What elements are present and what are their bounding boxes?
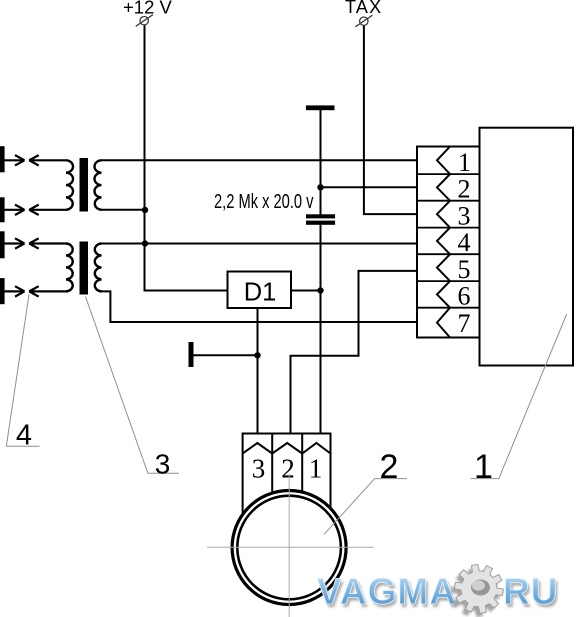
wire T1 secondary top to pin 1 <box>101 159 417 161</box>
sensor ring (component 2) <box>232 491 346 605</box>
wire D1 bottom to bottom connector pin 3 <box>257 308 259 434</box>
centerline horizontal <box>207 546 374 548</box>
transformer T2 primary winding <box>66 244 73 292</box>
wire T1 secondary bottom to +12V rail <box>101 209 146 211</box>
leader line label 3 <box>85 296 179 473</box>
leader line label 1 <box>471 314 567 479</box>
wire D1 output <box>291 290 321 292</box>
connector pin bar 2 <box>0 197 5 222</box>
capacitor C1 top terminal bar <box>306 105 335 110</box>
wire +12V rail to D1 <box>145 25 228 290</box>
watermark vagma.ru <box>317 571 560 615</box>
svg-text:4: 4 <box>16 420 32 452</box>
svg-text:D1: D1 <box>244 279 277 307</box>
connector pin bar 3 <box>0 231 5 258</box>
wire C1 bottom lead to bottom connector pin 1 <box>320 225 322 434</box>
svg-text:1: 1 <box>458 148 471 177</box>
svg-text:6: 6 <box>458 282 471 311</box>
svg-text:3: 3 <box>155 448 171 479</box>
junction dot ground net <box>254 352 260 358</box>
junction dot pin2 tap <box>317 184 323 190</box>
svg-text:4: 4 <box>458 228 471 257</box>
ground terminal bar <box>189 342 194 367</box>
wire pin 2 tap <box>321 186 418 188</box>
module D1 <box>228 272 292 309</box>
connector X1 pin numbers <box>458 148 472 338</box>
connector block X1 body <box>417 147 480 338</box>
transformer T2 core <box>80 242 89 295</box>
wire ground bar to D1 net <box>193 354 258 356</box>
wire + mating arrows pair 2 (y=209.8) <box>4 205 66 215</box>
svg-text:RU: RU <box>503 571 558 612</box>
connector X2 pin numbers <box>252 454 323 484</box>
leader line label 4 <box>6 295 39 447</box>
svg-text:VAGMA: VAGMA <box>317 571 457 612</box>
svg-text:2: 2 <box>380 448 399 486</box>
wire TAX to pin 3 <box>364 26 417 214</box>
wire + mating arrows pair 4 (y=291.4) <box>4 286 66 296</box>
terminal symbol +12V <box>136 15 153 27</box>
transformer T1 primary winding <box>66 160 73 210</box>
svg-text:1: 1 <box>474 448 493 486</box>
wire T2 secondary bottom to pin 7 <box>101 291 417 322</box>
connector X1 contact zigzag <box>437 147 450 338</box>
wire + mating arrows pair 1 (y=160.3) <box>4 155 66 165</box>
wire T2 secondary top to pin 4 <box>101 243 417 245</box>
connector X1 cell dividers <box>417 174 480 308</box>
junction dot T1 bottom / +12V <box>142 207 148 213</box>
connector pin bar 1 (top left) <box>0 146 5 172</box>
watermark gear icon <box>451 564 504 617</box>
svg-text:3: 3 <box>458 202 471 231</box>
capacitor C1 plates <box>306 214 335 218</box>
transformer T1 core <box>80 158 89 212</box>
wire + mating arrows pair 3 (y=243.5) <box>4 238 66 248</box>
svg-text:+12 V: +12 V <box>123 0 173 18</box>
bottom connector X2 body <box>243 433 331 515</box>
wire pin 5 to bottom connector pin 2 <box>291 271 418 434</box>
transformer T2 secondary winding <box>95 244 102 292</box>
svg-text:5: 5 <box>458 255 471 284</box>
transformer T1 secondary winding <box>94 160 101 210</box>
connector X2 contact zigzag <box>243 443 331 454</box>
wire C1 top lead <box>320 109 322 215</box>
svg-text:2: 2 <box>281 454 295 484</box>
connector pin bar 4 <box>0 278 5 304</box>
leader line label 2 <box>324 479 407 535</box>
svg-text:2: 2 <box>458 175 471 204</box>
centerline vertical <box>288 474 290 617</box>
svg-text:1: 1 <box>309 454 323 484</box>
terminal symbol TAX <box>355 15 372 27</box>
svg-text:3: 3 <box>252 454 266 484</box>
control unit U1 box <box>480 128 574 366</box>
junction dot T2 top / +12V <box>142 240 148 246</box>
svg-text:7: 7 <box>458 309 471 338</box>
junction dot D1 output / C1 lead <box>317 287 323 293</box>
svg-text:TAX: TAX <box>345 0 382 17</box>
svg-text:2,2 Mk x 20.0 v: 2,2 Mk x 20.0 v <box>214 191 314 213</box>
